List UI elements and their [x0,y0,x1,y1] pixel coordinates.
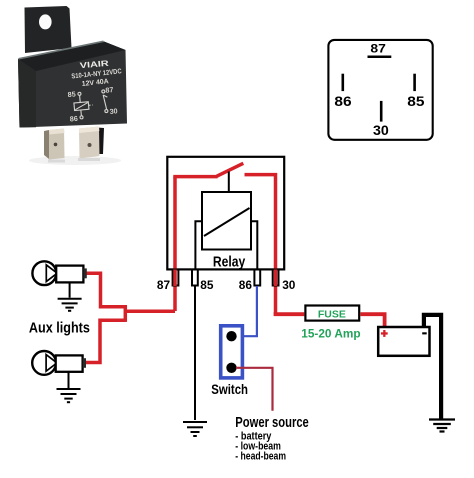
switch top contact [226,331,236,341]
coil diagonal [204,208,250,236]
svg-text:- head-beam: - head-beam [235,451,286,463]
pin 87 bar [368,56,392,59]
relay contact blade (red diagonal) [217,163,244,176]
red wire through pin 87 [173,270,177,287]
relay pin 30 terminal [273,270,279,286]
battery + terminal [381,330,388,337]
wire: red vertical from pin 87 up inside relay [173,177,177,311]
wire: battery negative to ground (thick black) [424,315,441,420]
wire: pin 85 to ground [194,286,196,420]
switch bottom contact [226,363,236,373]
svg-text:87: 87 [157,278,170,292]
wire: coil to pin 85 [195,221,202,270]
svg-text:85: 85 [407,93,424,109]
battery [378,327,429,356]
ground (battery) [429,420,455,432]
relay photo (VIAIR 40A automotive relay) [18,6,127,165]
relay pin 86 terminal [254,270,260,286]
svg-text:FUSE: FUSE [318,308,346,320]
svg-text:86: 86 [69,114,78,124]
wire: coil to pin 86 [251,221,257,270]
ground (bottom aux light) [57,371,81,402]
wire: red horizontal to switch blade [173,175,217,179]
ground (pin 85) [183,422,207,436]
switch box [221,326,243,378]
wire: pin 87 to aux lights junction [125,309,175,313]
wire: junction to top aux light [87,273,126,307]
junction bus [124,305,128,322]
svg-text:15-20 Amp: 15-20 Amp [301,326,360,340]
wire: pin 86 to switch (blue) [235,286,257,336]
pin 85 bar [413,74,416,91]
wire: junction to bottom aux light [86,320,125,362]
svg-text:Relay: Relay [213,255,245,271]
svg-text:30: 30 [373,123,389,138]
svg-text:30: 30 [282,278,295,292]
top aux light lamp [32,261,86,285]
red wire through pin 30 [274,270,278,287]
svg-text:Aux lights: Aux lights [29,321,90,337]
svg-text:Switch: Switch [211,381,248,397]
relay armature link [228,172,230,193]
wire: fuse to battery [360,314,384,326]
pin 30 bar [380,101,383,122]
svg-text:85: 85 [67,89,76,99]
pin 86 bar [342,74,345,91]
wire: pin 30 to fuse [276,312,305,314]
svg-text:86: 86 [334,93,351,109]
svg-text:86: 86 [239,278,252,292]
svg-text:87: 87 [105,85,114,95]
fuse box [305,306,359,321]
pin layout diagram box (top right) [328,40,432,140]
wire: switch to power source (dark red) [236,368,273,411]
relay pin 87 terminal [173,270,179,286]
svg-text:87: 87 [370,44,386,56]
ground (top aux light) [58,282,82,310]
relay coil box [202,192,251,250]
bottom aux light lamp [32,351,86,375]
wire: red from contact to pin 30 [245,175,276,314]
relay schematic outer box [167,157,284,270]
svg-text:Power source: Power source [235,415,308,431]
battery - terminal [422,332,427,334]
svg-text:30: 30 [109,106,118,116]
svg-text:85: 85 [200,278,213,292]
relay pin 85 terminal [192,270,198,286]
